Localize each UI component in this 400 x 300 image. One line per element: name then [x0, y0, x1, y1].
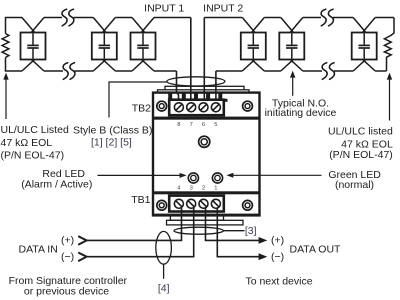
break symbol bottom-right pair — [322, 63, 334, 80]
screw terminal 6 — [199, 103, 208, 112]
module body outline — [153, 93, 260, 216]
svg-text:DATA OUT: DATA OUT — [290, 244, 342, 256]
arrow to right EOL — [387, 73, 392, 121]
module divider above TB1 — [153, 191, 260, 194]
svg-text:Style B (Class B): Style B (Class B) — [73, 125, 152, 137]
wire input1 top run — [5, 17, 191, 19]
svg-text:UL/ULC listed: UL/ULC listed — [328, 125, 393, 137]
svg-text:[4]: [4] — [158, 282, 170, 294]
svg-text:1: 1 — [214, 185, 217, 191]
note reference [3] — [245, 225, 257, 237]
svg-text:(Alarm / Active): (Alarm / Active) — [21, 178, 92, 190]
wire input2 top to terminal 6 — [203, 18, 205, 104]
wire input2 bottom to terminal 5 — [215, 71, 217, 103]
svg-text:(+): (+) — [271, 234, 284, 246]
wire input1 bottom to terminal 8 — [177, 71, 179, 103]
cable loop top ellipse — [167, 77, 225, 86]
svg-text:(normal): (normal) — [335, 179, 374, 191]
label Green LED — [328, 169, 381, 191]
label Style B Class B — [73, 125, 152, 149]
note reference [4] — [158, 282, 170, 294]
svg-text:(+): (+) — [61, 234, 74, 246]
mounting hole top-right — [243, 101, 253, 111]
label DATA IN — [19, 244, 58, 256]
mounting hole bottom-right — [243, 200, 253, 210]
LED green DS2 — [212, 173, 222, 183]
label Typical NO initiating device — [265, 98, 337, 120]
resistor left EOL 47k — [2, 18, 9, 72]
arrowhead DATA OUT plus — [259, 237, 268, 244]
svg-text:To next device: To next device — [245, 276, 312, 288]
connector chevron DATA IN minus — [78, 253, 86, 262]
svg-text:3: 3 — [190, 185, 193, 191]
svg-text:(P/N EOL-47): (P/N EOL-47) — [1, 149, 65, 161]
label To next device — [245, 276, 312, 288]
svg-text:6: 6 — [202, 122, 205, 128]
node INPUT 2 label — [203, 3, 243, 15]
resistor right EOL 47k — [384, 18, 394, 72]
svg-text:initiating device: initiating device — [265, 107, 337, 119]
wire terminal 1 to DATA OUT minus — [217, 208, 259, 257]
svg-text:INPUT 1: INPUT 1 — [144, 3, 184, 15]
leader to note 3 — [223, 230, 244, 232]
label Red LED — [21, 168, 92, 190]
svg-text:(−): (−) — [61, 251, 74, 263]
svg-text:DATA IN: DATA IN — [19, 244, 58, 256]
mounting hole bottom-left — [157, 200, 167, 210]
wire X at device D3 bottom — [132, 59, 154, 71]
svg-text:2: 2 — [202, 185, 205, 191]
cable clamp slab lower-narrow — [170, 215, 223, 220]
terminal block TB1 — [169, 196, 224, 212]
cable loop left ellipse DATA IN — [156, 231, 172, 264]
wire terminal 3 to DATA IN minus — [87, 208, 194, 257]
terminal block TB2 — [169, 100, 224, 116]
pin numbers 4 3 2 1 — [177, 185, 217, 191]
device D2 initiating device — [92, 33, 117, 60]
pin numbers 8 7 6 5 — [177, 122, 217, 128]
cable clamp slab lower-wide — [167, 220, 244, 225]
label DATA OUT — [290, 244, 342, 256]
wire X at device D6 top — [353, 18, 375, 33]
break symbol top-right pair — [321, 9, 333, 26]
label TB1 — [131, 194, 150, 206]
module bottom edge — [153, 214, 260, 217]
arrowhead DATA OUT minus — [259, 253, 268, 260]
svg-text:[1] [2] [5]: [1] [2] [5] — [91, 136, 132, 148]
wire X at device D2 top — [93, 18, 115, 33]
label DATA IN minus — [61, 251, 74, 263]
arrow Typical NO to device D5 — [290, 71, 295, 96]
screw terminal 4 — [174, 199, 183, 208]
svg-text:or previous device: or previous device — [24, 285, 109, 297]
svg-text:TB2: TB2 — [132, 102, 151, 114]
svg-text:7: 7 — [190, 122, 193, 128]
node INPUT 1 label — [144, 3, 184, 15]
screw terminal 1 — [211, 199, 220, 208]
wire X at device D1 bottom — [22, 59, 44, 71]
connector chevron DATA IN plus — [78, 236, 86, 245]
label DATA OUT minus — [271, 251, 284, 263]
svg-text:8: 8 — [177, 122, 180, 128]
label UL/ULC Listed left — [1, 124, 69, 162]
svg-text:UL/ULC Listed: UL/ULC Listed — [1, 124, 69, 136]
label DATA IN plus — [61, 234, 74, 246]
cable clamp slab upper-narrow — [165, 86, 244, 90]
screw terminal 7 — [187, 103, 196, 112]
wire X at device D1 top — [22, 18, 44, 33]
svg-text:TB1: TB1 — [131, 194, 150, 206]
label UL/ULC listed right — [328, 125, 393, 161]
wire input2 top run — [204, 17, 394, 19]
wire X at device D2 bottom — [93, 59, 115, 71]
module center hole — [199, 136, 210, 147]
svg-text:5: 5 — [214, 122, 217, 128]
device D3 initiating device — [131, 33, 156, 60]
leader arrow to green LED — [226, 173, 321, 178]
svg-text:[3]: [3] — [245, 225, 257, 237]
label TB2 — [132, 102, 151, 114]
wire X at device D5 top — [281, 18, 303, 33]
svg-text:(−): (−) — [271, 251, 284, 263]
device D6 initiating device — [352, 33, 377, 60]
svg-text:INPUT 2: INPUT 2 — [203, 3, 243, 15]
wire terminal 2 to DATA OUT plus — [206, 208, 260, 240]
wire X at device D5 bottom — [281, 59, 303, 71]
cable loop bottom ellipse — [174, 227, 223, 234]
wire input1 bottom run — [5, 70, 177, 72]
wire input1 top to terminal 7 — [190, 18, 192, 104]
device D1 initiating device — [21, 33, 46, 60]
wire X at device D6 bottom — [353, 59, 375, 71]
leader to note 4 — [163, 264, 165, 279]
wire X at device D3 top — [132, 18, 154, 33]
LED red DS1 — [188, 173, 198, 183]
device D4 initiating device — [241, 33, 266, 60]
cable clamp slab upper-wide — [158, 90, 250, 94]
svg-text:(P/N EOL-47): (P/N EOL-47) — [329, 149, 393, 161]
break symbol bottom-left pair — [63, 63, 75, 80]
wire terminal 4 to DATA IN plus — [87, 208, 182, 240]
mounting hole top-left — [157, 101, 167, 111]
wire X at device D4 bottom — [242, 59, 264, 71]
arrow to left EOL — [3, 73, 8, 119]
break symbol top-left pair — [62, 9, 74, 26]
screw terminal 5 — [211, 103, 220, 112]
terminal comb TB2 — [168, 93, 228, 102]
leader Style B to cable — [109, 82, 167, 118]
screw terminal 3 — [187, 199, 196, 208]
wire input2 bottom run — [216, 70, 387, 72]
device D5 initiating device — [279, 33, 304, 60]
label From Signature controller — [9, 275, 128, 297]
screw terminal 2 — [199, 199, 208, 208]
svg-text:47 kΩ EOL: 47 kΩ EOL — [1, 137, 53, 149]
wire X at device D4 top — [242, 18, 264, 33]
module divider below TB2 — [153, 117, 260, 120]
screw terminal 8 — [174, 103, 183, 112]
leader arrow to red LED — [98, 173, 187, 178]
label DATA OUT plus — [271, 234, 284, 246]
